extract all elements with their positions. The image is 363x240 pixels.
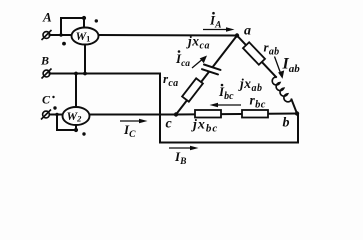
svg-text:C: C <box>42 93 51 107</box>
svg-text:B: B <box>40 54 49 68</box>
svg-text:A: A <box>42 10 52 25</box>
svg-text:a: a <box>244 24 251 39</box>
svg-text:c: c <box>166 117 173 132</box>
svg-text:b: b <box>283 116 290 131</box>
